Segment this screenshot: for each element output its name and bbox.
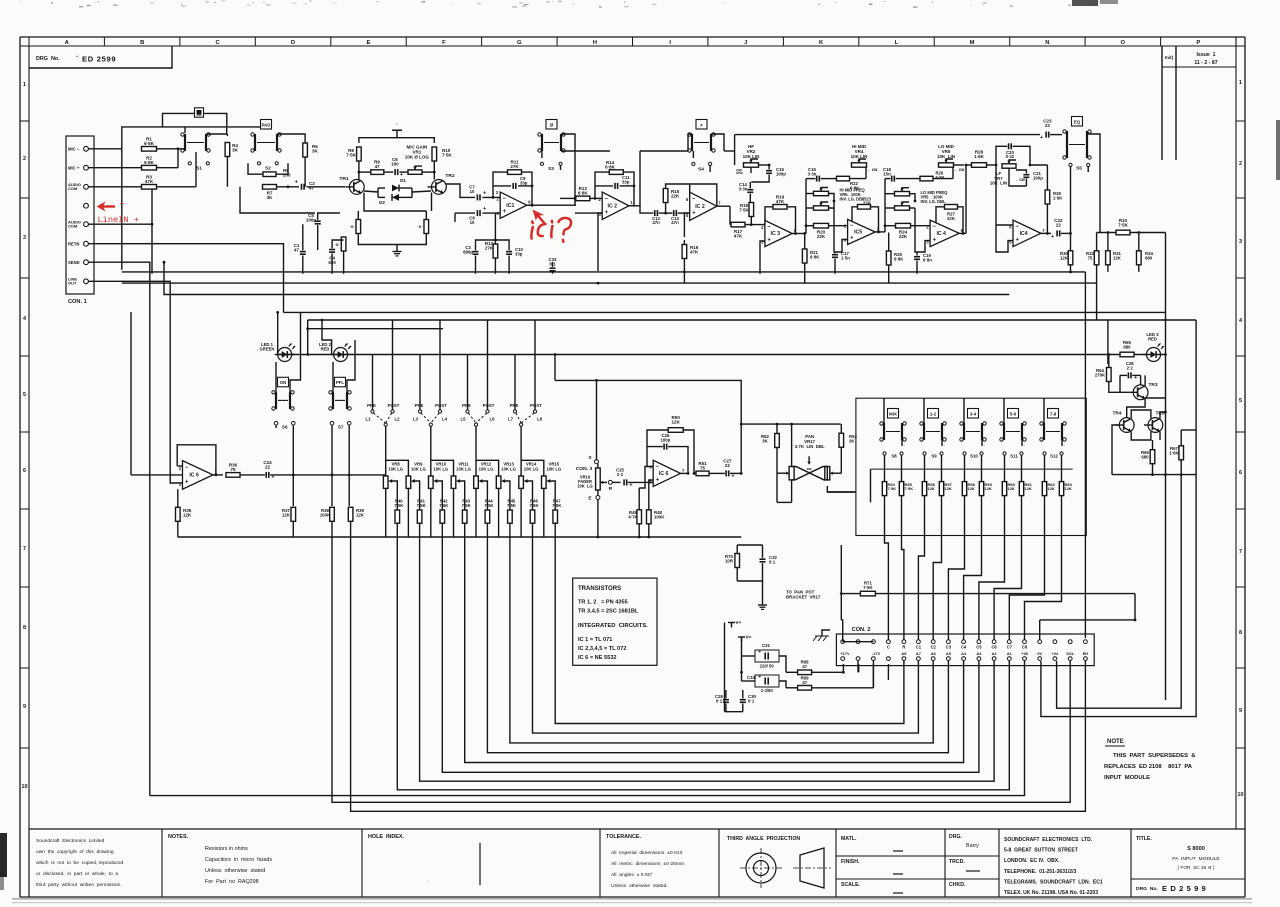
svg-text:7: 7 (1239, 549, 1242, 555)
diode D1 (378, 178, 412, 191)
wire IC6b feedback (647, 430, 694, 475)
capacitor C29 (715, 694, 729, 703)
svg-text:RETN: RETN (68, 241, 79, 246)
svg-text:9: 9 (23, 704, 26, 710)
svg-text:C6: C6 (991, 645, 997, 650)
transistors-note box (573, 578, 657, 665)
wire mid rail y380 (554, 353, 742, 474)
capacitor C5 (306, 213, 321, 224)
svg-text:or disclosed, in part or: or disclosed, in part or whole, to a (36, 871, 118, 877)
svg-text:PRE: PRE (462, 403, 471, 408)
wire R67 (1057, 430, 1197, 708)
svg-text:S5: S5 (1076, 166, 1082, 172)
svg-text:L: L (895, 40, 899, 46)
op-amp IC5 (844, 219, 880, 244)
svg-text:10K LG: 10K LG (411, 466, 426, 471)
fader pot VR16 (596, 468, 607, 490)
resistor R36 (226, 463, 240, 478)
svg-text:100K: 100K (320, 512, 331, 517)
svg-text:A2: A2 (992, 651, 997, 656)
wire R10 to TR2 (433, 161, 436, 180)
pan pot right (825, 467, 830, 480)
svg-text:12K: 12K (1113, 255, 1122, 260)
svg-text:S2: S2 (265, 166, 271, 172)
wire R71 line (840, 592, 1135, 595)
svg-text:1·6K: 1·6K (1053, 195, 1063, 200)
svg-text:IC 2: IC 2 (695, 204, 705, 210)
svg-text:12K: 12K (356, 512, 365, 517)
resistor R12 (485, 241, 498, 258)
wire IC3 out (792, 224, 807, 235)
svg-text:COM: COM (68, 224, 78, 229)
pre/post selector L3/L4 (413, 320, 448, 426)
wire R29 (1046, 165, 1048, 233)
right ruler row numbers 1-10 (1236, 46, 1245, 798)
svg-text:7·5K: 7·5K (905, 486, 914, 491)
op-amp IC3 (761, 220, 797, 246)
wire into C12 (640, 206, 654, 213)
wire TR5 collector (1160, 411, 1167, 419)
svg-text:DRG No.: DRG No. (36, 56, 60, 62)
resistor R27 (945, 205, 958, 221)
v+ symbol 2 (738, 635, 752, 643)
svg-text:2: 2 (23, 156, 26, 162)
svg-text:8: 8 (23, 625, 26, 631)
ground pan pot (758, 598, 767, 609)
svg-text:E: E (588, 496, 591, 502)
resistor R51 (696, 461, 709, 476)
wire S3 wiring (542, 134, 610, 170)
wire R66 (1152, 440, 1154, 475)
resistor R29 (1045, 190, 1063, 204)
svg-text:6·8n: 6·8n (923, 257, 932, 262)
svg-text:POST: POST (483, 403, 495, 408)
svg-text:−: − (185, 465, 189, 471)
svg-text:+: + (483, 190, 486, 196)
wire psu bottom (725, 690, 743, 712)
svg-text:IC 6 = NE 5532: IC 6 = NE 5532 (578, 655, 617, 661)
wire R12 C3 C10 to rails (476, 213, 510, 274)
resistor R5 (263, 168, 291, 178)
LED LED3 (1144, 332, 1165, 362)
svg-text:R: R (902, 645, 905, 650)
capacitor C4 (328, 250, 336, 266)
capacitor C32 (760, 555, 778, 564)
resistor R37 (282, 507, 296, 521)
svg-text:cw: cw (807, 467, 812, 471)
svg-text:C2: C2 (931, 645, 937, 650)
svg-text:−: − (692, 197, 696, 203)
svg-text:7·5K: 7·5K (1118, 223, 1129, 228)
wire C1 (302, 224, 304, 274)
red text LineIN + (98, 215, 139, 225)
svg-text:C3: C3 (946, 645, 952, 650)
svg-text:-17V: -17V (872, 651, 881, 656)
wire IC2b wiring (684, 184, 730, 237)
svg-text:12K: 12K (1025, 486, 1032, 491)
third angle projection symbol (727, 836, 831, 888)
wire mid rail y312 (284, 311, 1166, 313)
fader pot VR13 (496, 462, 516, 538)
svg-text:5: 5 (1239, 398, 1242, 404)
wire C7 to IC1- (482, 190, 500, 197)
capacitor C19 (914, 253, 932, 262)
svg-text:G: G (517, 40, 522, 46)
svg-text:7·5K: 7·5K (462, 503, 471, 508)
svg-text:4·7K: 4·7K (628, 514, 638, 519)
resistor R14 (605, 160, 623, 174)
svg-text:0·22: 0·22 (1006, 154, 1015, 159)
resistor R62 (1042, 455, 1055, 495)
svg-text:TR2: TR2 (445, 173, 455, 179)
svg-text:S7: S7 (338, 425, 344, 431)
svg-text:IC4: IC4 (1020, 231, 1028, 237)
resistor R55 (899, 455, 913, 495)
wire R6 (277, 134, 305, 187)
resistor R60 (1002, 455, 1015, 495)
resistor TR2 tail (417, 220, 428, 234)
svg-text:1: 1 (1239, 80, 1242, 86)
svg-text:−: − (767, 224, 771, 230)
op-amp IC4b (1009, 220, 1045, 247)
svg-text:+: + (629, 482, 632, 488)
wire IC2 plus down (575, 213, 602, 271)
wire IC1 feedback (492, 172, 534, 205)
drg trcd chkd cells (945, 834, 999, 888)
mic gain pot VR1 (405, 145, 430, 175)
svg-text:+: + (758, 674, 761, 680)
svg-text:HOLE INDEX.: HOLE INDEX. (368, 834, 404, 840)
bus wire 5 (465, 523, 964, 762)
capacitor C22 (1051, 218, 1063, 240)
svg-text:A4: A4 (961, 651, 967, 656)
svg-text:GREEN: GREEN (260, 347, 275, 352)
wire R48 (649, 480, 653, 537)
capacitor C1 (294, 243, 306, 254)
wire R20 (806, 225, 848, 227)
svg-text:S4: S4 (698, 166, 704, 172)
red arrow LineIN (97, 202, 125, 212)
resistor R68 (798, 660, 812, 675)
wire C12-C13 (659, 212, 690, 215)
wire C19 (916, 252, 918, 274)
wire R15 (666, 184, 690, 213)
svg-text:FINISH.: FINISH. (841, 859, 860, 865)
wire S4 wiring (688, 134, 724, 172)
resistor R52 (761, 434, 779, 448)
svg-text:+: + (767, 237, 771, 243)
svg-text:C5: C5 (976, 645, 982, 650)
wire R31 (1107, 231, 1110, 272)
svg-text:270K: 270K (1095, 372, 1106, 377)
svg-text:C7: C7 (1007, 645, 1013, 650)
transistor TR5 (1144, 411, 1165, 433)
wire IC6a input (131, 312, 183, 475)
resistor R66 (1141, 450, 1155, 464)
wire R25 (888, 233, 890, 284)
wire R4 down (226, 157, 228, 187)
op-amp IC2b (686, 192, 721, 220)
svg-text:+: + (656, 477, 660, 483)
wire rail A y272 (122, 271, 1086, 274)
transistor TR2 (428, 173, 455, 194)
resistor R56 (922, 455, 935, 495)
wire R pin to C25 (612, 481, 620, 483)
svg-text:12K: 12K (985, 486, 992, 491)
resistor R15 (663, 189, 680, 203)
wire led3 bottom (1112, 473, 1196, 476)
svg-text:·: · (396, 122, 398, 128)
svg-text:47K: 47K (145, 179, 154, 184)
op-amp IC4a (926, 220, 963, 247)
wire IC4a plus (915, 208, 930, 252)
wire SEND run (88, 262, 149, 795)
svg-text:100p: 100p (660, 437, 670, 442)
svg-text:C8: C8 (1022, 645, 1028, 650)
resistor R43 (456, 479, 471, 523)
mix routing box (856, 398, 1086, 535)
svg-text:680: 680 (1145, 255, 1153, 260)
wire R69 run (786, 664, 888, 688)
resistor R48 (647, 510, 666, 524)
svg-text:← cw: ← cw (867, 167, 879, 172)
svg-text:TELEGRAMS. SOUNDCRAFT LDN.: TELEGRAMS. SOUNDCRAFT LDN. EC1 (1004, 879, 1103, 885)
svg-text:10K LG: 10K LG (456, 466, 471, 471)
switch S6 with ON icon (272, 377, 294, 410)
LED LED1 (260, 342, 296, 362)
wire C21 (1009, 168, 1026, 186)
capacitor C24 (263, 460, 274, 481)
svg-text:10K LIN: 10K LIN (937, 154, 955, 159)
svg-text:+: + (1015, 237, 1019, 243)
wire R39 down (351, 521, 1086, 811)
capacitor C20 (1006, 143, 1015, 159)
svg-text:SEND: SEND (68, 260, 80, 265)
svg-text:6·8K: 6·8K (144, 141, 155, 146)
resistor R30 (1060, 251, 1073, 265)
wire C20 loop (995, 146, 1030, 166)
matl finish scale cells (836, 836, 945, 893)
svg-text:TR 1, 2 = PN 4355: TR 1, 2 = PN 4355 (578, 600, 628, 606)
wire S7 wiring (332, 340, 355, 506)
wire IC3 plus (760, 241, 765, 274)
wire R24 (884, 224, 931, 227)
svg-text:MIC −: MIC − (68, 146, 80, 151)
svg-text:2·2: 2·2 (1127, 365, 1134, 370)
resistor R69 (798, 676, 812, 691)
wire IC5 plus (834, 208, 848, 252)
bus wire send loop (150, 661, 1025, 796)
resistor R46 (524, 479, 539, 523)
wire R49 (639, 482, 645, 537)
svg-text:( FOR SC 26 !4 ): ( FOR SC 26 !4 ) (1178, 865, 1215, 871)
svg-text:INTEGRATED CIRCUITS.: INTEGRATED CIRCUITS. (578, 623, 648, 629)
transistor TR3 (1129, 382, 1158, 400)
wire pan feed (740, 423, 841, 426)
resistor R11 (508, 159, 522, 174)
svg-text:C34: C34 (747, 675, 756, 680)
wire R13 to IC2 (590, 197, 602, 199)
resistor R23 (858, 196, 872, 209)
svg-text:−: − (850, 223, 854, 229)
wire C33 (552, 262, 554, 274)
wire C24 out to faders (270, 474, 385, 477)
svg-text:10R: 10R (725, 558, 734, 563)
resistor R31 (1106, 251, 1122, 265)
wire VR5 links (806, 179, 835, 234)
title cell (1131, 836, 1245, 893)
resistor R3 (142, 175, 157, 190)
svg-text:47K: 47K (690, 250, 699, 255)
wire rail B y283 (122, 282, 1097, 285)
capacitor C31 (755, 643, 779, 669)
wire VR6 cw (954, 167, 966, 172)
pot VR5b (814, 202, 829, 210)
switch S7 with PFL icon (329, 377, 351, 410)
wire C25 to IC6b (628, 467, 653, 483)
resistor R1 (142, 137, 157, 152)
svg-text:L6: L6 (489, 416, 495, 421)
svg-text:7·5K: 7·5K (529, 503, 538, 508)
svg-text:10K LIN: 10K LIN (743, 154, 760, 159)
svg-text:22K: 22K (671, 194, 680, 199)
top ruler column letters A-P (29, 37, 1200, 46)
capacitor C9 (513, 176, 528, 189)
svg-text:SCALE.: SCALE. (841, 882, 861, 888)
wire IC4b in (996, 225, 1013, 252)
svg-text:N: N (1045, 40, 1049, 46)
svg-text:SOUNDCRAFT ELECTRONICS LTD.: SOUNDCRAFT ELECTRONICS LTD. (1004, 837, 1093, 843)
svg-text:SOL: SOL (1066, 651, 1075, 656)
svg-text:+48: +48 (1021, 651, 1028, 656)
left ruler row numbers 1-10 (20, 46, 29, 790)
capacitor C14 (739, 182, 754, 192)
svg-text:PRE: PRE (415, 403, 424, 408)
wire C15 (751, 164, 770, 182)
svg-text:1-2: 1-2 (930, 411, 937, 416)
wire MIC+ to R2 (88, 167, 141, 169)
svg-text:4·7K LIN DBL: 4·7K LIN DBL (795, 444, 825, 449)
wire TR emitters (364, 193, 432, 212)
mix switch 1-2 / S9 (920, 398, 946, 458)
svg-text:OUT: OUT (68, 281, 77, 286)
svg-text:27K: 27K (485, 246, 494, 251)
wire LF node down (996, 164, 1047, 225)
wire LINE OUT run (88, 281, 182, 483)
svg-text:+: + (758, 649, 761, 655)
wire mid rail y354 LED line (277, 354, 1147, 356)
svg-text:12K: 12K (183, 513, 192, 518)
svg-text:TELEPHONE. 01-251-3631/2/3: TELEPHONE. 01-251-3631/2/3 (1004, 869, 1077, 875)
bus wire 1 (555, 523, 904, 723)
svg-text:3: 3 (23, 235, 26, 241)
svg-text:S12: S12 (1050, 454, 1058, 459)
svg-text:1: 1 (23, 82, 26, 88)
title block outline (29, 829, 1245, 897)
svg-text:C1: C1 (916, 645, 922, 650)
svg-text:THIRD ANGLE PROJECTION: THIRD ANGLE PROJECTION (727, 836, 800, 842)
resistor R61 (1019, 455, 1032, 495)
svg-text:7·5K: 7·5K (507, 503, 516, 508)
svg-text:0V: 0V (1037, 651, 1042, 656)
svg-text:−: − (1015, 224, 1019, 230)
wire tails to ground rail (358, 211, 426, 245)
svg-text:own the copyright of this: own the copyright of this drawing (36, 849, 114, 855)
wire IC2 feedback (594, 172, 636, 206)
wire audio com junction vertical (151, 185, 154, 273)
capacitor C23 (1040, 119, 1052, 141)
svg-text:47K: 47K (776, 199, 785, 204)
svg-text:75: 75 (700, 466, 706, 471)
wire C31 C34 wiring (740, 656, 786, 688)
svg-text:EQ: EQ (1074, 119, 1081, 124)
switch S1 (181, 127, 210, 172)
svg-text:+: + (185, 480, 189, 486)
svg-text:CHKD.: CHKD. (949, 882, 966, 888)
svg-text:5-6: 5-6 (1010, 411, 1017, 416)
resistor R67 (1169, 446, 1183, 460)
svg-text:22K: 22K (947, 216, 956, 221)
svg-text:MIC +: MIC + (68, 165, 80, 170)
svg-text:BRACKET VR17: BRACKET VR17 (786, 594, 821, 599)
resistor R45 (501, 479, 516, 523)
fader pot VR14 (519, 426, 544, 537)
pot VR7 LF (990, 160, 1016, 186)
fader pot VR12 (474, 426, 499, 537)
wire R36 to C24 (240, 474, 265, 476)
wire IC6a minus link (177, 465, 182, 467)
svg-text:V+: V+ (736, 620, 742, 626)
svg-text:+: + (295, 179, 298, 185)
resistor R7 (263, 185, 277, 201)
pan wiper arrow (807, 456, 812, 471)
wire R19 loop (764, 207, 796, 234)
svg-text:10: 10 (1238, 792, 1244, 798)
svg-text:RED: RED (321, 347, 330, 352)
capacitor C6 (391, 157, 403, 178)
wire diode loop (364, 188, 431, 197)
wire psu verticals (725, 623, 742, 712)
resistor R13 (576, 186, 590, 201)
wire top rail TR block (359, 138, 434, 143)
svg-text:10K LG: 10K LG (501, 466, 516, 471)
wire IC6a out (213, 474, 223, 476)
svg-text:7·5K: 7·5K (552, 503, 561, 508)
fader pot VR9 (406, 462, 426, 538)
wire mix columns to con2 staircase (885, 496, 1062, 640)
svg-text:1·5n: 1·5n (841, 255, 850, 260)
wire pan verticals (777, 424, 841, 466)
svg-text:D1: D1 (400, 178, 406, 183)
resistor R42 (433, 479, 448, 523)
svg-text:M: M (970, 40, 975, 46)
switch S4 hf filter (688, 120, 715, 173)
wire IC6a feedback box (177, 445, 217, 477)
switch S3 phase (538, 120, 565, 173)
wire C28 wiring (1109, 375, 1141, 392)
wire r71 right drop (1134, 594, 1136, 620)
wire S2 loop (248, 163, 288, 174)
resistor R39 (348, 507, 364, 521)
bus wire 3 (510, 523, 933, 743)
svg-text:6: 6 (23, 468, 26, 474)
svg-text:22: 22 (1056, 223, 1062, 228)
svg-text:10K LG: 10K LG (577, 483, 592, 488)
svg-text:EH: EH (1083, 651, 1089, 656)
svg-text:7·5K: 7·5K (484, 503, 493, 508)
wire R38 down (332, 521, 1070, 802)
resistor R32 (1086, 251, 1099, 265)
